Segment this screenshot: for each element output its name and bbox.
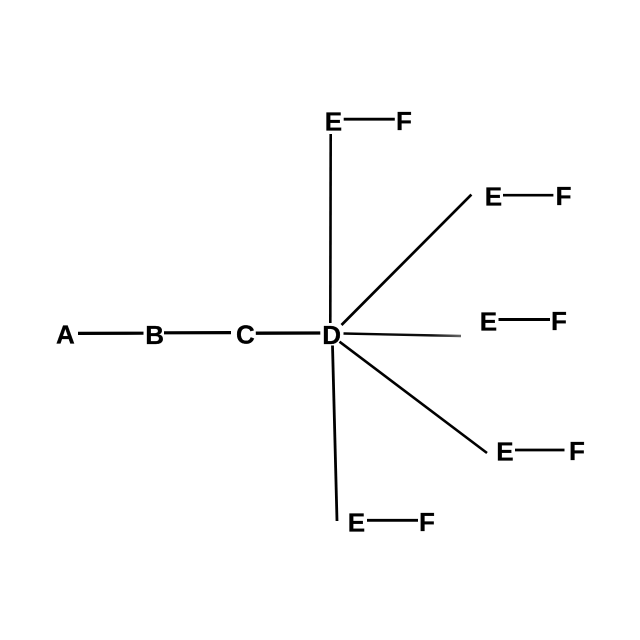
svg-text:E: E [348,508,365,538]
svg-text:F: F [396,106,412,136]
wire B-C [164,331,231,334]
svg-text:E: E [485,182,502,212]
svg-text:F: F [419,507,435,537]
wire D-E lower-right diagonal [340,342,488,453]
wire E-F lower-right [515,449,565,452]
svg-text:B: B [145,320,164,350]
svg-text:F: F [556,181,572,211]
wire D-E top vertical [329,134,332,323]
wire D-E upper-right diagonal [342,195,472,325]
svg-text:F: F [569,436,585,466]
wire E-F top [344,118,395,121]
svg-text:E: E [480,307,497,337]
wire E-F upper-right [503,194,553,197]
wire C-D [256,331,320,335]
svg-text:A: A [56,320,75,350]
svg-text:F: F [551,306,567,336]
svg-text:E: E [325,107,342,137]
wire D-E middle-right horizontal [344,334,462,337]
wire E-F bottom [367,519,418,522]
wire A-B [78,332,144,335]
svg-text:D: D [322,320,341,350]
wire E-F middle-right [499,318,551,321]
svg-text:C: C [236,320,255,350]
svg-text:E: E [496,436,513,466]
wire D-E bottom vertical [333,346,338,522]
